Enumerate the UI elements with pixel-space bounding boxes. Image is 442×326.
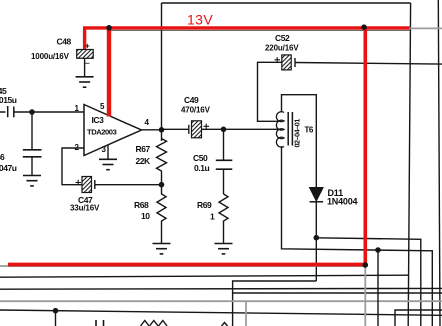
wire under 13V rail (109, 29, 410, 31)
svg-text:.047u: .047u (0, 163, 17, 173)
svg-text:10: 10 (141, 211, 150, 221)
wire C46 to ground (31, 157, 33, 176)
svg-text:02–04–01: 02–04–01 (293, 119, 302, 148)
svg-text:R68: R68 (134, 200, 149, 210)
svg-text:R69: R69 (197, 200, 212, 210)
small mark at bottom edge (222, 323, 228, 326)
svg-text:470/16V: 470/16V (181, 106, 211, 115)
red wire bottom horizontal (8, 263, 367, 267)
ground below C48 (76, 77, 94, 87)
capacitor C52 220u/16V (275, 55, 296, 70)
op-amp IC3 TDA2003 (84, 105, 142, 156)
red vertical right (363, 27, 367, 266)
red wire to C48 (83, 27, 86, 50)
node junction on bottom-right wire (375, 247, 381, 253)
capacitor partial at bottom edge (96, 320, 104, 326)
svg-text:C50: C50 (193, 153, 208, 163)
diode D11 1N4004 (310, 188, 324, 202)
wire left vertical from top bus to IC3 output node (161, 3, 163, 141)
svg-text:R67: R67 (136, 144, 151, 154)
wire D11 cathode down (315, 202, 317, 281)
node output junction (159, 127, 165, 133)
resistor R69 1 (219, 194, 228, 244)
wire corner segment bottom right (395, 310, 442, 326)
svg-text:33u/16V: 33u/16V (70, 204, 100, 213)
resistor partial at bottom edge (141, 321, 168, 326)
wire C49 to C50 node (202, 128, 224, 130)
coil T6 core lines (288, 112, 292, 146)
gray bus line (0, 300, 442, 302)
wire C46 branch down (31, 112, 33, 149)
wire stub down from bus 4 (55, 311, 57, 326)
svg-text:IC3: IC3 (92, 115, 105, 125)
svg-text:1000u/16V: 1000u/16V (31, 52, 70, 61)
wire output node to C49 (162, 128, 189, 130)
wire coil tap 2 (from C50 node) handled above (277, 128, 282, 130)
ground below R68 (153, 244, 171, 254)
gray wire stub left of red (0, 265, 9, 267)
node C50 junction (221, 127, 227, 133)
node D11 junction (314, 235, 320, 241)
wire bottom bus 4 (0, 310, 442, 315)
svg-text:13V: 13V (187, 12, 213, 28)
wire pin 4 output (142, 129, 162, 131)
svg-text:C48: C48 (57, 37, 72, 47)
svg-text:220u/16V: 220u/16V (265, 44, 299, 53)
wire coil top loop to D11 (282, 95, 317, 187)
svg-text:C49: C49 (184, 95, 199, 105)
ground below pin 3 (99, 159, 117, 169)
resistor R67 22K (157, 139, 167, 185)
13V red rail (83, 26, 410, 29)
wire C52 right to edge (295, 63, 442, 65)
svg-text:22K: 22K (136, 156, 152, 166)
node junction on rail at C48 branch (106, 25, 112, 31)
capacitor C50 0.1u (223, 129, 225, 159)
capacitor C48 1000u/16V (77, 42, 94, 77)
wire branch segment right of jog (233, 292, 442, 294)
wire vertical below node on bottom-right wire (377, 250, 379, 326)
svg-text:C46: C46 (0, 152, 5, 162)
wire pin 2 feedback to C47 (62, 148, 84, 185)
svg-text:1: 1 (210, 212, 215, 222)
node junction at red corner (363, 262, 369, 268)
wire under bottom red (8, 266, 365, 268)
capacitor C49 470/16V (189, 121, 209, 138)
ground below R69 (215, 244, 233, 254)
svg-text:T6: T6 (305, 126, 314, 135)
coil T6 winding (276, 112, 284, 147)
svg-text:.015u: .015u (0, 95, 17, 105)
resistor R68 10 (157, 185, 166, 244)
wire C47 to R67/R68 node (95, 184, 162, 186)
wire pin1 input (14, 111, 84, 113)
wire C50 node to coil T6 (224, 128, 282, 130)
wire pin 3 to ground (107, 145, 109, 160)
wire bottom bus 3 (0, 287, 442, 290)
gray wire top right (409, 27, 442, 29)
wire right vertical x=438 (438, 0, 440, 326)
svg-text:0.1u: 0.1u (194, 163, 209, 173)
red wire to pin 5 (107, 27, 111, 117)
svg-text:C52: C52 (275, 33, 290, 43)
capacitor C46 (23, 150, 42, 157)
svg-text:TDA2003: TDA2003 (87, 128, 117, 137)
node junction on bus 4 (53, 308, 59, 314)
svg-text:5: 5 (100, 102, 105, 111)
wire jog from D11 column left and down (233, 281, 317, 326)
capacitor C45 (partial at left edge) (0, 106, 14, 117)
svg-text:1N4004: 1N4004 (327, 197, 358, 207)
node junction C46 branch (29, 109, 35, 115)
wire D11 node right and down at x=420 (316, 238, 421, 326)
wire C52 left to coil tap 1 (258, 62, 282, 121)
node junction on rail at right branch (361, 24, 367, 30)
node R67/R68/C47 junction (159, 182, 165, 188)
gray vertical below red corner (364, 266, 366, 326)
wire top bus line (162, 2, 411, 4)
wire right vertical x=408 full height (408, 3, 410, 326)
svg-text:4: 4 (145, 118, 150, 127)
wire coil bottom down and right (282, 146, 433, 326)
gray vertical from bus to bottom (245, 301, 247, 326)
wire bottom bus 2 (0, 275, 409, 277)
capacitor C47 33u/16V (76, 177, 95, 193)
ground below C46 (23, 176, 41, 186)
